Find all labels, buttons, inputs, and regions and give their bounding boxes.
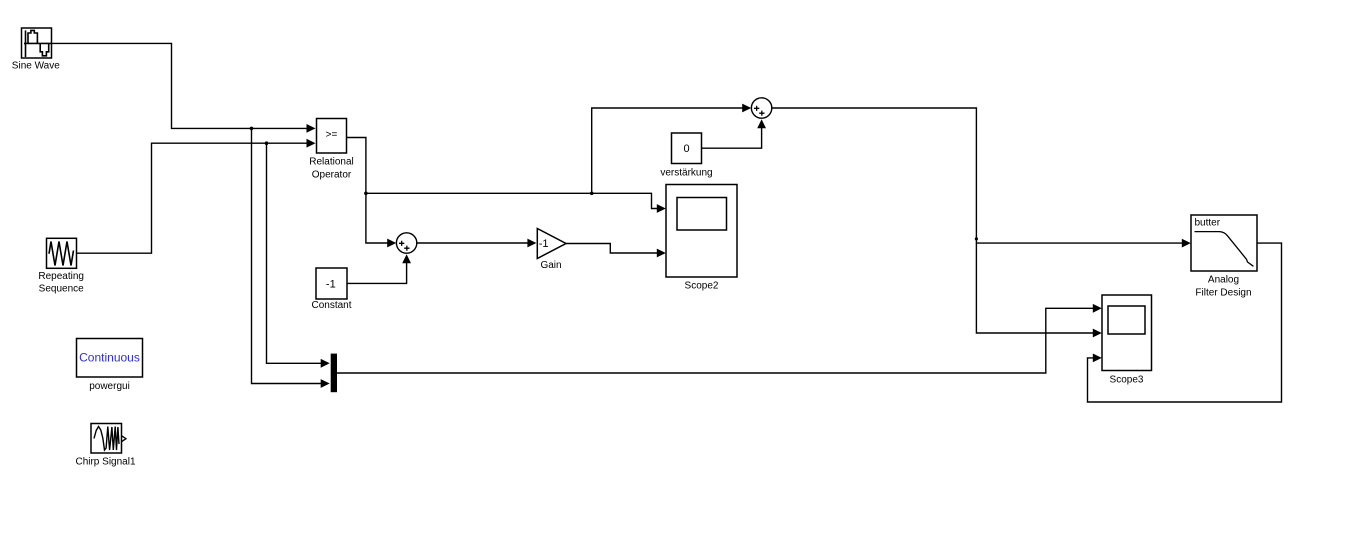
block verstärkung constant xyxy=(660,133,712,179)
svg-text:Operator: Operator xyxy=(312,170,352,181)
block Analog Filter Design xyxy=(1191,215,1257,299)
svg-text:Sine Wave: Sine Wave xyxy=(12,61,60,72)
wire Repeating Sequence out to Relational Operator in2 xyxy=(77,139,316,253)
mux Mux xyxy=(331,354,337,393)
svg-text:-1: -1 xyxy=(326,278,336,290)
wire branch to Scope2 in1 xyxy=(366,193,666,213)
block Scope2 xyxy=(666,185,737,292)
wire branch up to Sum2 in1 xyxy=(592,104,752,194)
svg-text:Filter Design: Filter Design xyxy=(1195,288,1251,299)
block Repeating Sequence xyxy=(38,238,84,294)
svg-text:powergui: powergui xyxy=(89,381,130,392)
wire Gain out to Scope2 in2 xyxy=(566,244,666,258)
svg-text:-1: -1 xyxy=(539,238,549,250)
junction node at branch to Sum2 line xyxy=(590,192,594,196)
wire Sum1 out to Gain xyxy=(417,239,537,248)
svg-text:>=: >= xyxy=(326,130,338,141)
wire branch junction to Mux in2 xyxy=(252,128,330,388)
block Sine Wave xyxy=(12,28,60,72)
block Scope3 xyxy=(1102,295,1152,386)
block Gain xyxy=(537,229,566,272)
svg-text:Scope2: Scope2 xyxy=(685,281,719,292)
svg-text:Chirp Signal1: Chirp Signal1 xyxy=(75,457,135,468)
wire Sum2 out to Analog Filter Design xyxy=(772,108,1191,248)
junction node at branch to Scope2 line xyxy=(364,192,368,196)
svg-text:Constant: Constant xyxy=(311,300,351,311)
wire verstärkung out to Sum2 bottom xyxy=(702,119,767,148)
svg-text:Relational: Relational xyxy=(309,157,353,168)
junction node on in1 line xyxy=(250,127,254,131)
block Relational Operator xyxy=(309,119,353,181)
sum block Sum1 xyxy=(396,233,416,253)
wire Constant out to Sum1 bottom xyxy=(347,254,411,283)
junction node on filter feed line xyxy=(975,237,978,240)
wire branch down to Scope3 in2 xyxy=(976,243,1101,337)
svg-text:Repeating: Repeating xyxy=(38,271,84,282)
wire Sine Wave out to Relational Operator in1 xyxy=(52,43,316,132)
svg-text:Scope3: Scope3 xyxy=(1110,375,1144,386)
svg-text:Gain: Gain xyxy=(540,260,561,271)
wire Analog Filter Design out to Scope3 in3 xyxy=(1088,243,1282,402)
svg-text:Continuous: Continuous xyxy=(79,351,140,365)
wire Relational Operator out to Sum1 xyxy=(347,138,397,248)
svg-text:butter: butter xyxy=(1195,218,1221,229)
block powergui xyxy=(77,339,143,393)
block Constant xyxy=(311,268,351,311)
svg-text:verstärkung: verstärkung xyxy=(660,168,712,179)
block Chirp Signal1 xyxy=(75,424,135,468)
junction node on in2 line xyxy=(265,141,269,145)
sum block Sum2 xyxy=(751,98,771,118)
svg-text:Sequence: Sequence xyxy=(39,284,84,295)
wire Mux out to Scope3 in1 xyxy=(337,304,1102,373)
svg-text:0: 0 xyxy=(683,143,689,155)
svg-text:Analog: Analog xyxy=(1208,275,1239,286)
wire branch junction to Mux in1 xyxy=(267,143,330,368)
